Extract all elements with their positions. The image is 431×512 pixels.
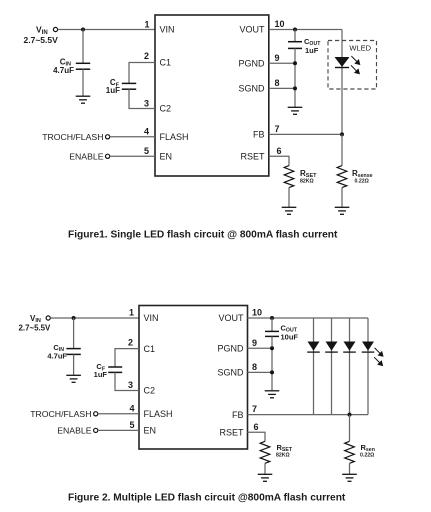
svg-text:0.22Ω: 0.22Ω bbox=[360, 452, 374, 458]
junction dot pin 8 (Fig2) bbox=[270, 370, 274, 374]
wire Rsense to ground (Fig1) bbox=[341, 188, 343, 208]
svg-text:82KΩ: 82KΩ bbox=[300, 178, 314, 184]
svg-text:C1: C1 bbox=[160, 58, 172, 68]
svg-text:1uF: 1uF bbox=[106, 86, 120, 95]
diode WLED (Fig1) bbox=[335, 57, 350, 68]
wire CIN bottom lead (Fig1) bbox=[82, 69, 84, 96]
wire CIN top lead (Fig2) bbox=[73, 318, 75, 349]
ground SGND (Fig1) bbox=[288, 107, 303, 114]
wire CF to pin 3 (Fig1) bbox=[129, 89, 155, 108]
wire COUT top lead (Fig1) bbox=[294, 30, 296, 42]
junction dot VOUT/COUT (Fig1) bbox=[293, 28, 297, 32]
svg-text:RSET: RSET bbox=[219, 428, 244, 438]
junction dot VIN/CIN (Fig2) bbox=[72, 316, 76, 320]
svg-text:FLASH: FLASH bbox=[160, 132, 189, 142]
ground RSET (Fig2) bbox=[258, 474, 273, 481]
svg-text:3: 3 bbox=[128, 380, 133, 390]
capacitor COUT (Fig2) bbox=[265, 330, 279, 332]
diode LED1 (Fig2) bbox=[307, 342, 320, 353]
svg-text:1uF: 1uF bbox=[305, 46, 319, 55]
wire FB (Fig1) bbox=[269, 133, 342, 135]
wire pin 5 (Fig2) bbox=[98, 429, 139, 431]
svg-text:6: 6 bbox=[254, 422, 259, 432]
capacitor CF (Fig1) bbox=[122, 82, 136, 84]
svg-text:1: 1 bbox=[129, 308, 134, 318]
svg-text:EN: EN bbox=[160, 152, 173, 162]
svg-text:Figure 2. Multiple LED flash c: Figure 2. Multiple LED flash circuit @80… bbox=[68, 493, 346, 504]
wire RSET to ground (Fig2) bbox=[264, 463, 266, 474]
ground CIN (Fig2) bbox=[66, 375, 81, 382]
wire pin 8 (Fig2) bbox=[248, 371, 273, 373]
svg-text:VIN: VIN bbox=[30, 314, 41, 324]
WLED light rays (Fig1) bbox=[351, 56, 360, 74]
junction dot VOUT/COUT (Fig2) bbox=[270, 316, 274, 320]
svg-text:EN: EN bbox=[144, 426, 157, 436]
svg-text:10: 10 bbox=[252, 308, 262, 318]
svg-text:4: 4 bbox=[144, 126, 149, 136]
ground SGND (Fig2) bbox=[265, 391, 280, 398]
svg-text:82KΩ: 82KΩ bbox=[276, 452, 290, 458]
wire COUT top lead (Fig2) bbox=[271, 318, 273, 331]
ground Rsense (Fig1) bbox=[335, 207, 350, 214]
svg-text:4.7uF: 4.7uF bbox=[47, 352, 67, 361]
wire pin 9 (Fig1) bbox=[269, 62, 295, 64]
svg-text:9: 9 bbox=[275, 53, 280, 63]
svg-text:WLED: WLED bbox=[349, 44, 371, 53]
node VIN terminal (Fig1) bbox=[53, 27, 57, 31]
svg-text:C2: C2 bbox=[160, 104, 172, 114]
svg-text:1uF: 1uF bbox=[94, 370, 108, 379]
wire VOUT rail (Fig2) bbox=[248, 317, 369, 319]
wire pin 9 (Fig2) bbox=[248, 347, 273, 349]
svg-text:2: 2 bbox=[128, 338, 133, 348]
LED4 light rays (Fig2) bbox=[374, 348, 383, 366]
wire RSET to ground (Fig1) bbox=[288, 188, 290, 208]
wire pin 5 (Fig1) bbox=[110, 155, 155, 157]
svg-text:2: 2 bbox=[144, 51, 149, 61]
wire LED branch vertical (Fig1) bbox=[341, 30, 343, 135]
svg-text:SGND: SGND bbox=[217, 368, 244, 378]
op IC U1 box (Fig1) bbox=[155, 15, 269, 176]
wire Rsense top lead (Fig1) bbox=[341, 134, 343, 165]
svg-text:FB: FB bbox=[232, 410, 244, 420]
wire LED column 2 (Fig2) bbox=[331, 318, 333, 415]
svg-text:VOUT: VOUT bbox=[239, 25, 265, 35]
svg-text:8: 8 bbox=[275, 78, 280, 88]
capacitor CIN (Fig1) bbox=[76, 62, 90, 64]
svg-text:2.7~5.5V: 2.7~5.5V bbox=[24, 35, 59, 45]
capacitor CF (Fig2) bbox=[108, 366, 122, 368]
diode LED4 (Fig2) bbox=[362, 342, 375, 353]
wire Rsen to ground (Fig2) bbox=[349, 463, 351, 474]
wire COUT to ground (Fig1) bbox=[294, 48, 296, 107]
resistor RSET (Fig2) bbox=[260, 441, 270, 463]
svg-text:FLASH: FLASH bbox=[144, 409, 173, 419]
wire pin 8 (Fig1) bbox=[269, 87, 295, 89]
node TROCH/FLASH terminal (Fig1) bbox=[106, 135, 110, 139]
svg-text:C1: C1 bbox=[144, 344, 156, 354]
wire pin 2 to CF (Fig1) bbox=[129, 63, 155, 84]
svg-text:ENABLE: ENABLE bbox=[69, 151, 103, 161]
wire VOUT rail (Fig1) bbox=[269, 29, 342, 31]
dashed box WLED (Fig1) bbox=[328, 41, 377, 90]
ground Rsen (Fig2) bbox=[342, 474, 357, 481]
svg-text:VOUT: VOUT bbox=[218, 313, 244, 323]
wire LED column 3 (Fig2) bbox=[349, 318, 351, 415]
svg-text:ENABLE: ENABLE bbox=[57, 425, 91, 435]
svg-text:C2: C2 bbox=[144, 386, 156, 396]
svg-text:7: 7 bbox=[275, 124, 280, 134]
ground CIN (Fig1) bbox=[76, 96, 91, 103]
svg-text:VIN: VIN bbox=[144, 313, 159, 323]
svg-text:2.7~5.5V: 2.7~5.5V bbox=[19, 324, 52, 333]
svg-text:10uF: 10uF bbox=[281, 332, 299, 341]
capacitor COUT (Fig1) bbox=[288, 41, 302, 43]
node TROCH/FLASH terminal (Fig2) bbox=[94, 412, 98, 416]
wire pin 4 (Fig2) bbox=[98, 413, 139, 415]
op IC U1 box (Fig2) bbox=[139, 306, 248, 450]
diode LED2 (Fig2) bbox=[325, 342, 338, 353]
svg-text:8: 8 bbox=[252, 362, 257, 372]
svg-text:PGND: PGND bbox=[238, 59, 265, 69]
node VIN terminal (Fig2) bbox=[46, 316, 50, 320]
wire pin 6 to RSET (Fig1) bbox=[269, 156, 289, 165]
junction dot pin 9 (Fig2) bbox=[270, 346, 274, 350]
svg-text:3: 3 bbox=[144, 98, 149, 108]
svg-text:7: 7 bbox=[252, 404, 257, 414]
wire FB rail (Fig2) bbox=[248, 414, 369, 416]
svg-text:6: 6 bbox=[277, 146, 282, 156]
wire pin 4 (Fig1) bbox=[110, 136, 155, 138]
ground RSET (Fig1) bbox=[282, 207, 297, 214]
svg-text:SGND: SGND bbox=[238, 84, 265, 94]
wire COUT to ground (Fig2) bbox=[271, 336, 273, 390]
svg-text:1: 1 bbox=[144, 19, 149, 29]
svg-text:4: 4 bbox=[129, 403, 134, 413]
junction dot FB/Rsen (Fig2) bbox=[348, 413, 352, 417]
wire LED column 4 (Fig2) bbox=[367, 318, 369, 415]
resistor RSET (Fig1) bbox=[284, 166, 294, 188]
node ENABLE terminal (Fig2) bbox=[94, 428, 98, 432]
svg-text:10: 10 bbox=[275, 19, 285, 29]
wire VIN rail to pin 1 (Fig2) bbox=[50, 317, 139, 319]
svg-text:9: 9 bbox=[252, 338, 257, 348]
resistor Rsen (Fig2) bbox=[345, 441, 355, 463]
junction dot VIN/CIN (Fig1) bbox=[81, 28, 85, 32]
wire LED column 1 (Fig2) bbox=[313, 318, 315, 415]
junction dot FB (Fig1) bbox=[340, 132, 344, 136]
svg-text:PGND: PGND bbox=[217, 344, 244, 354]
svg-text:FB: FB bbox=[253, 130, 265, 140]
svg-text:Figure1. Single LED flash circ: Figure1. Single LED flash circuit @ 800m… bbox=[68, 230, 338, 241]
node ENABLE terminal (Fig1) bbox=[106, 154, 110, 158]
svg-text:0.22Ω: 0.22Ω bbox=[355, 179, 369, 185]
junction dot pin 9 (Fig1) bbox=[293, 61, 297, 65]
wire pin 2 to CF (Fig2) bbox=[115, 349, 139, 367]
svg-text:5: 5 bbox=[144, 146, 149, 156]
wire CIN bottom lead (Fig2) bbox=[73, 354, 75, 375]
svg-text:5: 5 bbox=[129, 420, 134, 430]
svg-text:VIN: VIN bbox=[160, 25, 175, 35]
junction dot pin 8 (Fig1) bbox=[293, 86, 297, 90]
wire Rsen top lead (Fig2) bbox=[349, 415, 351, 442]
svg-text:TROCH/FLASH: TROCH/FLASH bbox=[42, 132, 103, 142]
wire pin 6 to RSET (Fig2) bbox=[248, 432, 266, 441]
svg-text:TROCH/FLASH: TROCH/FLASH bbox=[30, 409, 91, 419]
svg-text:RSET: RSET bbox=[240, 152, 265, 162]
resistor Rsense (Fig1) bbox=[337, 166, 347, 188]
svg-text:4.7uF: 4.7uF bbox=[53, 66, 74, 75]
wire VIN rail to pin 1 (Fig1) bbox=[58, 29, 155, 31]
diode LED3 (Fig2) bbox=[343, 342, 356, 353]
wire CIN top lead (Fig1) bbox=[82, 30, 84, 64]
capacitor CIN (Fig2) bbox=[66, 348, 80, 350]
wire CF to pin 3 (Fig2) bbox=[115, 372, 139, 390]
